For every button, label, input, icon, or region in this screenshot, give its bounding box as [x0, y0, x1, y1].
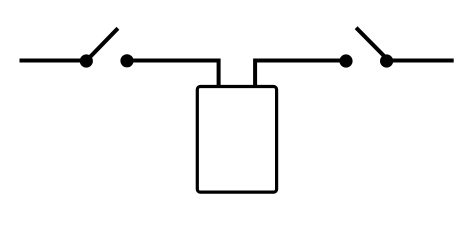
wire right lead — [387, 59, 454, 63]
switch S1 contact dot right — [120, 54, 133, 67]
switch S2 contact dot right — [380, 54, 393, 67]
wire left lead — [20, 59, 87, 63]
component box K1 — [197, 87, 276, 193]
switch S2 lever — [356, 28, 387, 59]
switch S1 contact dot left — [80, 54, 93, 67]
switch S2 contact dot left — [339, 54, 352, 67]
wire from S1 to node A — [127, 61, 219, 89]
switch S1 lever — [86, 28, 118, 61]
wire from node B to S2 — [255, 61, 346, 89]
